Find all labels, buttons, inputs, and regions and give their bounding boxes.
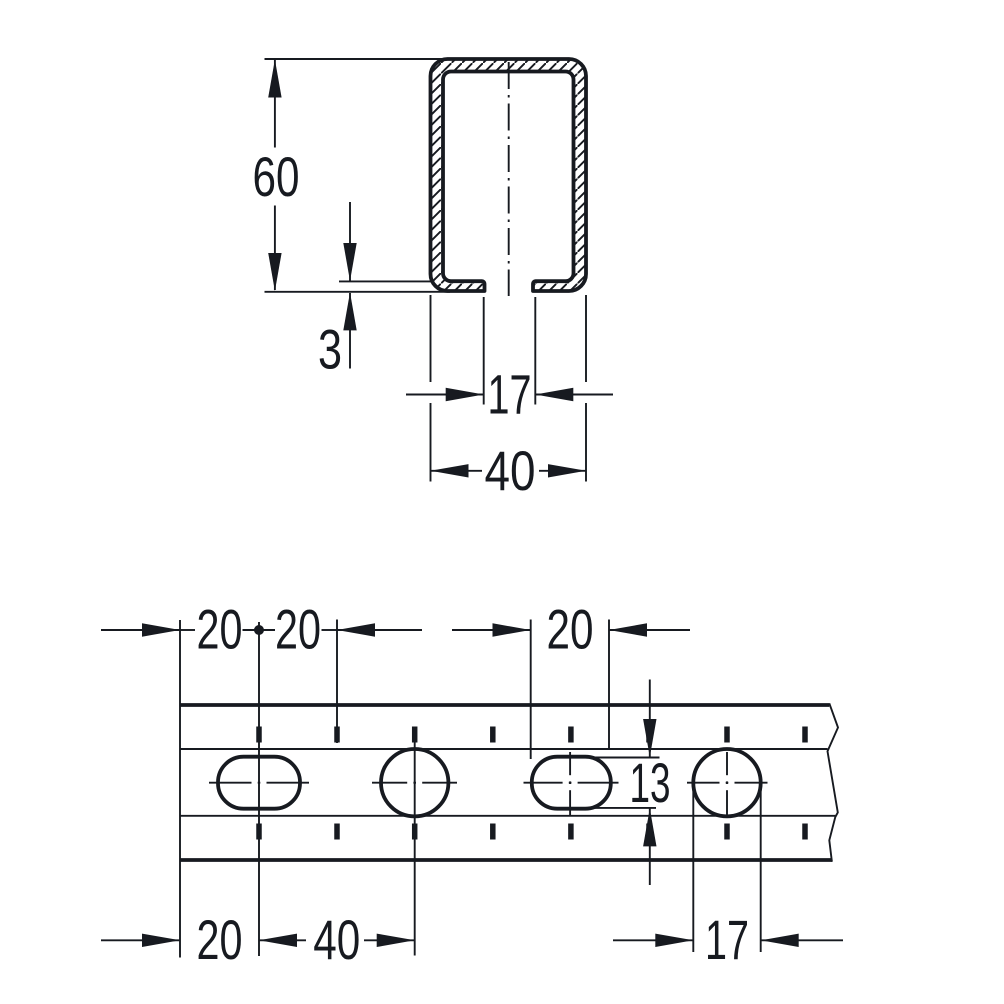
rail bottom edge [180, 858, 832, 862]
hole 1 horizontal centerline [209, 782, 252, 784]
dim 17 right extension line [534, 297, 536, 405]
dim 13 lower leader with up arrow [649, 808, 651, 885]
dim 17 left tail with arrow right [613, 939, 693, 941]
dim 40 arrow right [548, 464, 586, 477]
dim 17 right extension line (circle tangent) [760, 784, 762, 953]
arrow left at slot right edge with tail [609, 623, 647, 636]
top row arrow right at rail edge [142, 623, 180, 636]
slot hole 3 (oblong) [532, 757, 611, 809]
hole 2 vertical centerline / extension line [414, 727, 416, 956]
extension line at x=337 [336, 620, 338, 744]
svg-text:60: 60 [253, 145, 300, 208]
rail top edge [180, 703, 829, 707]
tick marks top band [259, 727, 805, 743]
dim 3 upper leader line [349, 202, 351, 281]
bottom row: dim 20 leader left [101, 939, 180, 941]
dim 17 left extension line [483, 297, 485, 405]
hole 2 horizontal centerline [372, 782, 407, 784]
bottom dim 40 dimension line segments [259, 939, 306, 941]
dim 13 upper extension line [556, 757, 660, 759]
hole 4 vertical centerline [726, 752, 728, 775]
dim 60 top extension line [265, 58, 448, 60]
dim 40 dimension line left segment [431, 470, 483, 472]
top dim 20 (hole3 slot) left tail [452, 629, 531, 631]
dim 13 lower extension line [559, 807, 656, 809]
top row: dim 20 (edge to hole1) leader [101, 629, 180, 631]
dim 13 upper leader with down arrow [649, 680, 651, 757]
round hole 4 [693, 749, 760, 816]
svg-text:13: 13 [630, 751, 671, 814]
rail lower inner line [180, 815, 835, 817]
dim 40 right extension line (broken at 17 dim line) [585, 295, 587, 382]
slot hole 1 (oblong) [218, 757, 300, 809]
hole 4 horizontal centerline [687, 782, 720, 784]
dim 60 arrow up [268, 60, 281, 98]
svg-text:20: 20 [547, 598, 594, 661]
svg-text:20: 20 [275, 598, 321, 661]
dim 40 dimension line right segment [539, 470, 586, 472]
arrow right at slot left edge [493, 623, 531, 636]
svg-text:20: 20 [197, 598, 243, 661]
tick marks bottom band [259, 824, 805, 840]
svg-text:3: 3 [318, 318, 342, 381]
dim 3 upper extension line (lip top surface) [339, 280, 433, 282]
dim 60 bottom extension line [265, 291, 451, 293]
hole 3 vertical centerline [569, 752, 571, 775]
rail upper inner line [180, 748, 828, 750]
hole 3 horizontal centerline [524, 782, 563, 784]
bottom dim 40 arrow right [377, 934, 415, 947]
dim 17 right tail with arrow left [761, 939, 843, 941]
extension line slot left edge [530, 620, 532, 760]
C-profile cross-section (hatched wall, closed contour) [431, 59, 587, 291]
svg-text:17: 17 [705, 908, 749, 971]
extension line slot right edge [608, 620, 610, 751]
dimension dot at hole1 center [254, 625, 264, 635]
dim 17 left extension line (circle tangent) [692, 784, 694, 953]
profile vertical centerline (dash-dot) [508, 62, 510, 296]
top row short line segments [180, 629, 195, 631]
bottom row arrow right at rail edge [142, 934, 180, 947]
dim 3 arrow up [343, 292, 356, 330]
svg-text:17: 17 [488, 363, 532, 426]
bottom dim 40 arrow left [259, 934, 297, 947]
dim 3 arrow down [343, 243, 356, 281]
hole 1 vertical centerline / extension line [258, 622, 260, 956]
svg-text:40: 40 [485, 439, 536, 502]
round hole 2 [381, 749, 448, 816]
dim 17 arrow left [535, 388, 573, 401]
dim 3 lower leader line [349, 293, 351, 369]
top row arrow left at x=337 with tail [337, 623, 375, 636]
dim 40 left extension line (broken at 17 dim line) [430, 295, 432, 382]
dim 17 right dimension line [535, 394, 613, 396]
dim 17 left dimension line [406, 394, 484, 396]
dim 60 dimension line upper segment [274, 60, 276, 148]
dim 60 arrow down [268, 253, 281, 291]
svg-text:20: 20 [197, 908, 243, 971]
rail left edge / extension line [179, 620, 181, 958]
svg-text:40: 40 [313, 908, 360, 971]
dim 40 arrow left [431, 464, 469, 477]
rail break line (right end) [828, 703, 839, 862]
dim 60 dimension line lower segment [274, 206, 276, 291]
dim 17 arrow right [446, 388, 484, 401]
